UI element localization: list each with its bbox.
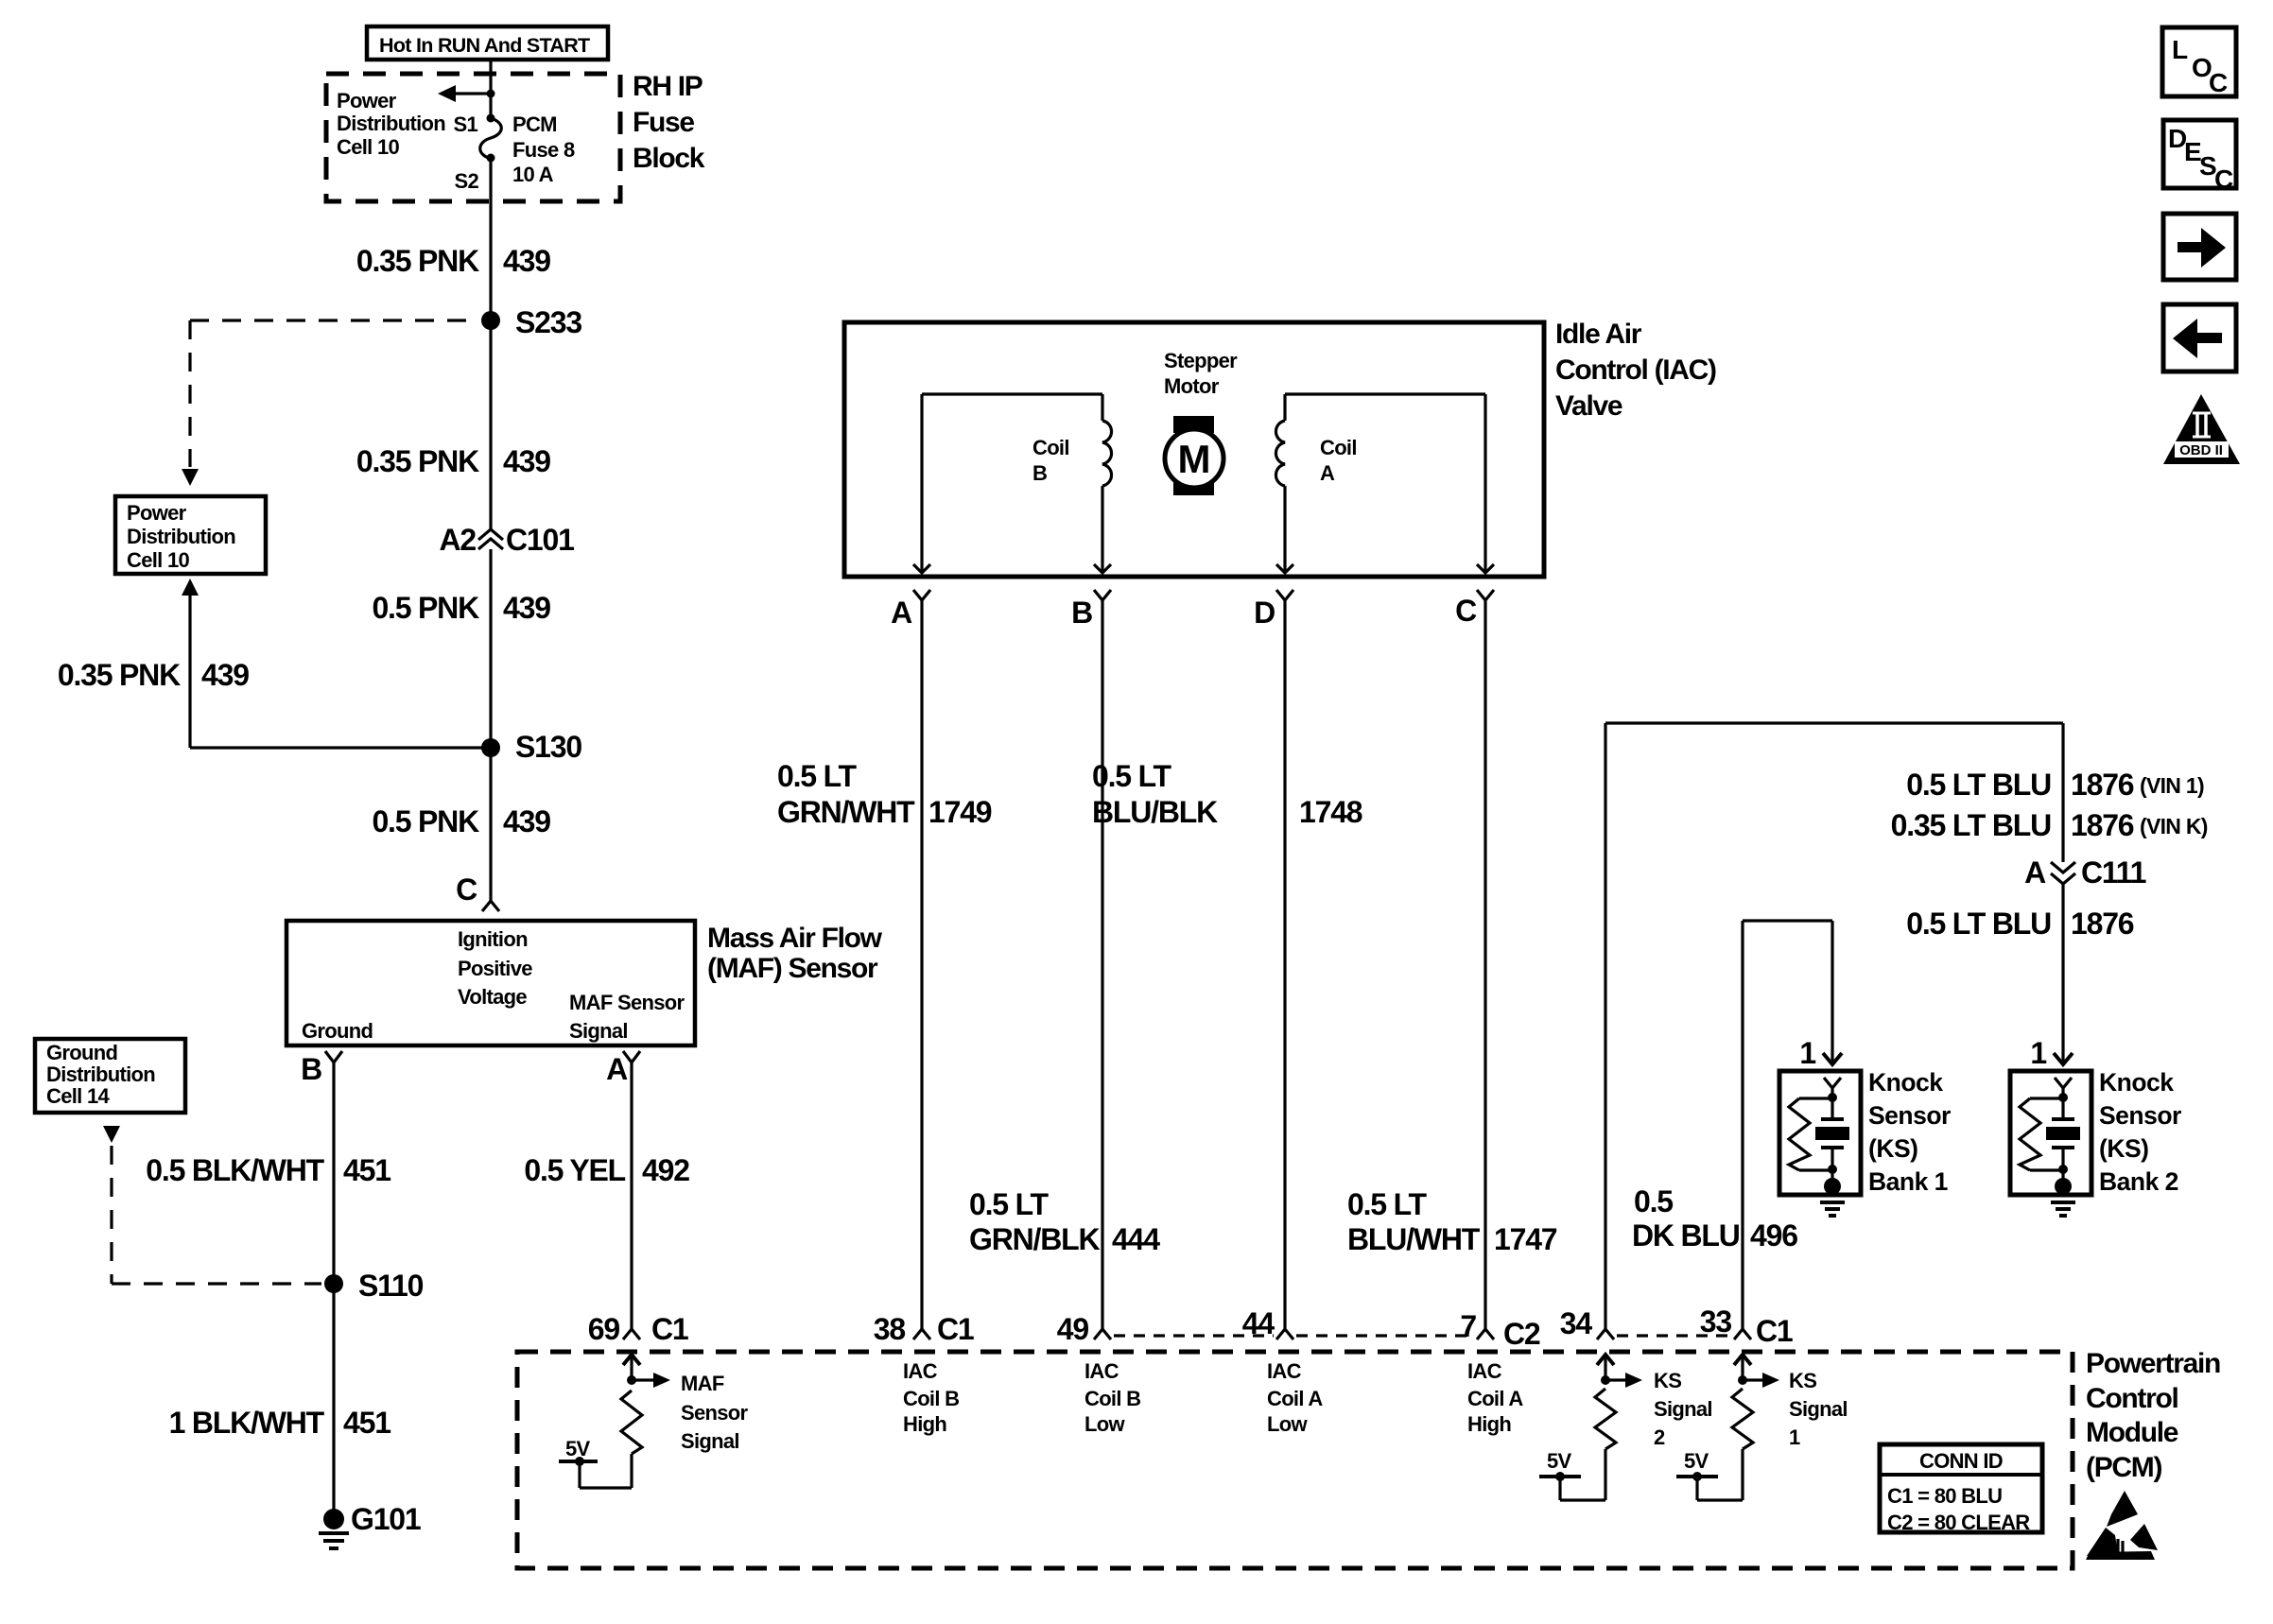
svg-text:0.35 LT BLU: 0.35 LT BLU <box>1891 808 2051 842</box>
wire: hot feed into fuse block <box>489 60 492 117</box>
svg-text:C: C <box>2209 68 2228 97</box>
svg-text:(VIN K): (VIN K) <box>2140 814 2208 838</box>
svg-text:C: C <box>1455 594 1477 628</box>
svg-text:S233: S233 <box>515 305 581 339</box>
svg-text:Signal: Signal <box>1789 1397 1848 1421</box>
svg-text:Power: Power <box>127 501 187 525</box>
svg-text:1748: 1748 <box>1299 795 1362 829</box>
svg-text:OBD II: OBD II <box>2179 442 2223 458</box>
svg-text:1876: 1876 <box>2071 768 2134 802</box>
wire 1 BLK/WHT 451: S110 to G101 <box>332 1284 335 1512</box>
svg-text:IAC: IAC <box>1467 1359 1502 1383</box>
svg-text:0.5 LT: 0.5 LT <box>1347 1187 1428 1221</box>
label IAC Coil B High <box>903 1359 959 1436</box>
svg-text:Coil: Coil <box>1032 436 1069 459</box>
svg-text:GRN/WHT: GRN/WHT <box>777 795 915 829</box>
label IAC Coil A Low <box>1267 1359 1323 1436</box>
svg-text:Coil A: Coil A <box>1467 1387 1523 1410</box>
wire 0.5 BLK/WHT 451: MAF pin B to S110 <box>332 1063 335 1284</box>
ESD sensitive device symbol <box>2086 1491 2158 1560</box>
svg-text:MAF Sensor: MAF Sensor <box>569 991 685 1014</box>
svg-text:BLU/WHT: BLU/WHT <box>1347 1222 1481 1256</box>
pin 69 C1 of PCM <box>588 1312 688 1346</box>
icon OBD II triangle <box>2163 394 2240 464</box>
wire 0.5 LT BLU 1876: C111 to knock sensor bank 2 <box>2054 884 2073 1064</box>
svg-text:C101: C101 <box>506 523 574 557</box>
pin 44 of PCM <box>1242 1306 1293 1340</box>
box Ground Distribution Cell 14 <box>35 1039 185 1113</box>
icon arrow left <box>2163 304 2236 371</box>
svg-text:5V: 5V <box>1684 1449 1709 1473</box>
svg-text:Coil: Coil <box>1320 436 1357 459</box>
label Knock Sensor (KS) Bank 1 <box>1868 1068 1951 1196</box>
svg-text:MAF: MAF <box>681 1372 724 1395</box>
svg-text:Bank 2: Bank 2 <box>2099 1167 2178 1196</box>
box Mass Air Flow (MAF) Sensor <box>286 921 695 1045</box>
svg-text:2: 2 <box>1654 1425 1665 1449</box>
svg-text:IAC: IAC <box>903 1359 938 1383</box>
svg-text:0.35 PNK: 0.35 PNK <box>356 444 479 478</box>
label IAC Coil A High <box>1467 1359 1523 1436</box>
pin B of MAF sensor <box>301 1051 342 1086</box>
svg-text:C2 = 80 CLEAR: C2 = 80 CLEAR <box>1887 1511 2030 1534</box>
label Stepper Motor <box>1164 349 1238 398</box>
svg-text:1: 1 <box>1799 1036 1815 1070</box>
svg-text:Low: Low <box>1084 1412 1125 1436</box>
svg-text:(VIN 1): (VIN 1) <box>2140 773 2204 798</box>
label 0.5 LT BLU/BLK 1748 <box>1092 759 1362 829</box>
pin B of IAC valve <box>1071 590 1111 630</box>
svg-text:Voltage: Voltage <box>458 985 527 1009</box>
box Powertrain Control Module (PCM) dashed <box>517 1352 2073 1568</box>
svg-text:IAC: IAC <box>1267 1359 1302 1383</box>
svg-text:Cell 10: Cell 10 <box>337 135 399 159</box>
svg-text:439: 439 <box>503 444 550 478</box>
IAC internal wire pin C side <box>1285 394 1494 573</box>
svg-text:7: 7 <box>1460 1309 1476 1343</box>
svg-text:Idle Air: Idle Air <box>1555 319 1642 350</box>
svg-text:S1: S1 <box>453 112 477 136</box>
svg-text:GRN/BLK: GRN/BLK <box>969 1222 1100 1256</box>
in-line connector A2 C101 <box>439 523 574 557</box>
svg-text:Distribution: Distribution <box>127 525 235 548</box>
svg-text:D: D <box>1254 596 1275 630</box>
svg-text:1876: 1876 <box>2071 907 2134 941</box>
svg-text:0.5 YEL: 0.5 YEL <box>524 1153 625 1187</box>
svg-text:C1: C1 <box>651 1312 688 1346</box>
svg-text:C1 = 80 BLU: C1 = 80 BLU <box>1887 1484 2002 1508</box>
icon arrow right <box>2163 214 2236 280</box>
svg-text:439: 439 <box>503 804 550 838</box>
label KS Signal 1 <box>1789 1369 1848 1449</box>
splice S110 <box>324 1269 424 1303</box>
box Power Distribution Cell 10 <box>115 496 266 574</box>
svg-text:Control (IAC): Control (IAC) <box>1555 354 1716 386</box>
svg-text:1: 1 <box>1789 1425 1800 1449</box>
svg-text:A: A <box>891 596 912 630</box>
svg-text:Valve: Valve <box>1555 390 1622 422</box>
svg-text:High: High <box>1467 1412 1511 1436</box>
svg-text:KS: KS <box>1654 1369 1681 1392</box>
svg-text:Sensor: Sensor <box>681 1401 749 1425</box>
svg-text:Distribution: Distribution <box>337 112 445 135</box>
svg-text:0.5 PNK: 0.5 PNK <box>372 804 479 838</box>
svg-text:A: A <box>606 1052 628 1086</box>
CONN ID table <box>1880 1444 2042 1534</box>
svg-text:69: 69 <box>588 1312 620 1346</box>
label 0.5 LT BLU/WHT 1747 <box>1347 1187 1557 1256</box>
svg-text:0.5 LT: 0.5 LT <box>969 1187 1050 1221</box>
pin D of IAC valve <box>1254 590 1293 630</box>
label Powertrain Control Module (PCM) <box>2086 1348 2220 1483</box>
label Mass Air Flow (MAF) Sensor <box>707 923 883 984</box>
svg-text:Block: Block <box>633 143 705 174</box>
label 0.35 PNK 439 <box>356 444 550 478</box>
stepper motor M <box>1165 416 1223 495</box>
label 0.35 LT BLU 1876 (VIN K) <box>1891 808 2208 842</box>
knock sensor (KS) bank 2 <box>2010 1071 2091 1216</box>
svg-text:A: A <box>2024 855 2046 890</box>
svg-text:IAC: IAC <box>1084 1359 1119 1383</box>
wire 0.5 LT GRN/WHT 1749: IAC A to PCM 38 <box>920 600 923 1329</box>
svg-text:1749: 1749 <box>928 795 992 829</box>
dashed wire from S233 to power distribution <box>182 320 478 486</box>
pin 34 of PCM <box>1560 1306 1614 1340</box>
svg-text:High: High <box>903 1412 946 1436</box>
label 0.5 LT GRN/BLK 444 <box>969 1187 1160 1256</box>
pin C of IAC valve <box>1455 590 1494 628</box>
svg-text:L: L <box>2172 35 2188 64</box>
pin 38 C1 of PCM <box>874 1312 974 1346</box>
svg-text:439: 439 <box>503 591 550 625</box>
icon LOC <box>2162 27 2236 97</box>
svg-text:(KS): (KS) <box>1868 1134 1917 1163</box>
svg-text:B: B <box>301 1052 321 1086</box>
svg-text:G101: G101 <box>351 1502 421 1536</box>
svg-text:0.35 PNK: 0.35 PNK <box>356 244 479 278</box>
label 0.5 LT GRN/WHT 1749 <box>777 759 992 829</box>
svg-text:Control: Control <box>2086 1383 2178 1414</box>
dashed connector line 34 to 33 <box>1617 1334 1729 1337</box>
splice S130 <box>481 730 581 764</box>
svg-text:0.5 LT: 0.5 LT <box>1092 759 1172 793</box>
wire 0.5 PNK 439: S130 to MAF sensor pin C <box>489 748 492 901</box>
pin A of IAC valve <box>891 590 930 630</box>
wire 0.35 PNK 439: fuse to S233 <box>489 159 492 314</box>
box Idle Air Control (IAC) Valve <box>844 322 1544 577</box>
svg-text:1876: 1876 <box>2071 808 2134 842</box>
svg-text:Cell 14: Cell 14 <box>46 1084 110 1108</box>
svg-text:Knock: Knock <box>2099 1068 2174 1097</box>
wire 0.35 PNK 439: S233 to C101 <box>489 320 492 529</box>
splice S233 <box>481 305 581 339</box>
svg-text:PCM: PCM <box>512 112 557 136</box>
svg-text:Signal: Signal <box>681 1429 739 1453</box>
svg-text:C: C <box>456 872 477 907</box>
svg-text:Coil B: Coil B <box>903 1387 959 1410</box>
wire 0.5 PNK 439: C101 to S130 <box>489 549 492 748</box>
svg-text:Positive: Positive <box>458 957 532 980</box>
svg-text:0.5 LT BLU: 0.5 LT BLU <box>1906 768 2051 802</box>
svg-text:(MAF) Sensor: (MAF) Sensor <box>707 953 878 984</box>
svg-text:0.5 LT BLU: 0.5 LT BLU <box>1906 907 2051 941</box>
svg-text:Fuse: Fuse <box>633 107 694 138</box>
svg-text:Stepper: Stepper <box>1164 349 1238 372</box>
svg-text:KS: KS <box>1789 1369 1816 1392</box>
svg-text:38: 38 <box>874 1312 906 1346</box>
svg-text:Sensor: Sensor <box>1868 1101 1951 1130</box>
in-line connector A C111 <box>2024 855 2145 890</box>
svg-text:Power: Power <box>337 89 397 112</box>
svg-text:Coil B: Coil B <box>1084 1387 1140 1410</box>
dashed connector line 49 to 44 <box>1114 1334 1274 1337</box>
svg-text:S130: S130 <box>515 730 581 764</box>
svg-text:Knock: Knock <box>1868 1068 1943 1097</box>
svg-text:Bank 1: Bank 1 <box>1868 1167 1948 1196</box>
svg-text:C2: C2 <box>1503 1317 1540 1351</box>
title box Hot In RUN And START <box>367 26 608 60</box>
svg-text:1: 1 <box>2030 1036 2046 1070</box>
PCM internal MAF sensor signal circuit <box>559 1355 670 1488</box>
svg-text:BLU/BLK: BLU/BLK <box>1092 795 1218 829</box>
svg-text:Motor: Motor <box>1164 374 1220 398</box>
wire 0.5 LT GRN/BLK 444: IAC B to PCM 49 <box>1101 600 1103 1329</box>
svg-text:Ignition: Ignition <box>458 927 528 951</box>
svg-text:Mass Air Flow: Mass Air Flow <box>707 923 883 954</box>
svg-text:C1: C1 <box>1756 1314 1793 1348</box>
label IAC Coil B Low <box>1084 1359 1140 1436</box>
svg-text:Distribution: Distribution <box>46 1063 155 1086</box>
svg-text:Ground: Ground <box>46 1041 117 1064</box>
svg-text:Low: Low <box>1267 1412 1308 1436</box>
PCM internal KS signal 1 circuit <box>1676 1355 1779 1500</box>
svg-text:C: C <box>2214 164 2233 194</box>
fuse PCM Fuse 8 10 A <box>480 112 575 186</box>
svg-text:Module: Module <box>2086 1417 2178 1448</box>
svg-text:C1: C1 <box>937 1312 974 1346</box>
RH IP fuse block (dashed box) <box>326 74 620 201</box>
svg-text:439: 439 <box>503 244 550 278</box>
svg-text:(PCM): (PCM) <box>2086 1452 2161 1483</box>
svg-text:451: 451 <box>343 1153 390 1187</box>
svg-text:C111: C111 <box>2081 855 2146 890</box>
wire 0.5 YEL 492: MAF pin A to PCM pin 69 <box>630 1063 633 1329</box>
wire 0.5 LT BLU/BLK 1748: IAC D to PCM 44 <box>1283 600 1286 1329</box>
wire knock sensor feed top rail <box>1605 723 2063 1329</box>
svg-text:Powertrain: Powertrain <box>2086 1348 2220 1379</box>
label 0.5 PNK 439 <box>372 804 550 838</box>
pin 7 C2 of PCM <box>1460 1309 1540 1351</box>
pin 33 C1 of PCM <box>1700 1304 1793 1348</box>
wire branch 0.35 PNK 439 from S130 up to power distribution box <box>182 579 491 748</box>
svg-text:B: B <box>1032 461 1047 485</box>
svg-text:Fuse 8: Fuse 8 <box>512 138 575 162</box>
ground G101 <box>319 1502 421 1548</box>
svg-text:5V: 5V <box>565 1437 591 1460</box>
svg-text:Ground: Ground <box>302 1019 373 1043</box>
svg-text:A: A <box>1320 461 1335 485</box>
svg-text:Sensor: Sensor <box>2099 1101 2181 1130</box>
svg-text:10 A: 10 A <box>512 163 554 186</box>
label 0.5 YEL 492 <box>524 1153 689 1187</box>
dashed connector line 44 to 7 <box>1296 1334 1472 1337</box>
svg-text:Hot In RUN And START: Hot In RUN And START <box>379 34 590 57</box>
svg-text:M: M <box>1178 437 1211 481</box>
label 0.5 LT BLU 1876 (VIN 1) <box>1906 768 2204 802</box>
dashed wire from ground distribution to S110 <box>103 1126 321 1284</box>
svg-text:0.35 PNK: 0.35 PNK <box>58 658 181 692</box>
svg-text:Coil A: Coil A <box>1267 1387 1323 1410</box>
svg-text:RH IP: RH IP <box>633 71 703 102</box>
svg-text:0.5 LT: 0.5 LT <box>777 759 858 793</box>
svg-text:S110: S110 <box>358 1269 424 1303</box>
knock sensor (KS) bank 1 <box>1779 1071 1861 1216</box>
svg-text:DK BLU: DK BLU <box>1632 1218 1740 1253</box>
pin 49 of PCM <box>1057 1312 1111 1346</box>
svg-text:(KS): (KS) <box>2099 1134 2148 1163</box>
icon DESC <box>2163 120 2236 194</box>
arrow to power distribution (left arrow in fuse block) <box>438 85 495 102</box>
coil B <box>1032 394 1112 573</box>
svg-text:451: 451 <box>343 1406 390 1440</box>
label 0.5 PNK 439 <box>372 591 550 625</box>
label Idle Air Control (IAC) Valve <box>1555 319 1716 422</box>
svg-text:0.5 PNK: 0.5 PNK <box>372 591 479 625</box>
svg-text:496: 496 <box>1750 1218 1797 1253</box>
label 0.35 PNK 439 <box>356 244 550 278</box>
wire 0.5 LT BLU/WHT 1747: IAC C to PCM 7 <box>1484 600 1486 1329</box>
svg-text:49: 49 <box>1057 1312 1089 1346</box>
label KS Signal 2 <box>1654 1369 1712 1449</box>
svg-text:Cell 10: Cell 10 <box>127 548 189 572</box>
label Knock Sensor (KS) Bank 2 <box>2099 1068 2181 1196</box>
label Power Distribution Cell 10 (inside fuse block) <box>337 89 445 159</box>
svg-text:439: 439 <box>201 658 249 692</box>
svg-text:34: 34 <box>1560 1306 1593 1340</box>
label 0.5 LT BLU 1876 <box>1906 907 2134 941</box>
svg-text:Signal: Signal <box>1654 1397 1712 1421</box>
label 1 BLK/WHT 451 <box>169 1406 391 1440</box>
svg-text:492: 492 <box>642 1153 689 1187</box>
svg-text:CONN ID: CONN ID <box>1919 1449 2003 1473</box>
svg-text:A2: A2 <box>439 523 476 557</box>
svg-text:S2: S2 <box>454 169 478 193</box>
wire 0.5 DK BLU 496: PCM 33 to knock sensor bank 1 <box>1743 921 1842 1329</box>
pin A of MAF sensor <box>606 1051 640 1086</box>
svg-text:1 BLK/WHT: 1 BLK/WHT <box>169 1406 325 1440</box>
IAC internal wire pin A side <box>913 394 1102 573</box>
svg-text:B: B <box>1071 596 1092 630</box>
label RH IP Fuse Block <box>633 71 705 174</box>
PCM internal KS signal 2 circuit <box>1539 1355 1642 1500</box>
coil A <box>1275 394 1356 573</box>
label 0.5 BLK/WHT 451 <box>146 1153 390 1187</box>
svg-text:444: 444 <box>1112 1222 1160 1256</box>
svg-text:33: 33 <box>1700 1304 1732 1339</box>
svg-text:1747: 1747 <box>1494 1222 1557 1256</box>
label 0.5 DK BLU 496 <box>1632 1184 1797 1253</box>
pin C of MAF sensor <box>456 872 499 911</box>
label MAF Sensor Signal (PCM) <box>681 1372 749 1453</box>
svg-text:0.5 BLK/WHT: 0.5 BLK/WHT <box>146 1153 324 1187</box>
label 0.35 PNK 439 (branch) <box>58 658 249 692</box>
svg-text:Signal: Signal <box>569 1019 628 1043</box>
svg-text:0.5: 0.5 <box>1634 1184 1673 1218</box>
svg-text:5V: 5V <box>1547 1449 1572 1473</box>
